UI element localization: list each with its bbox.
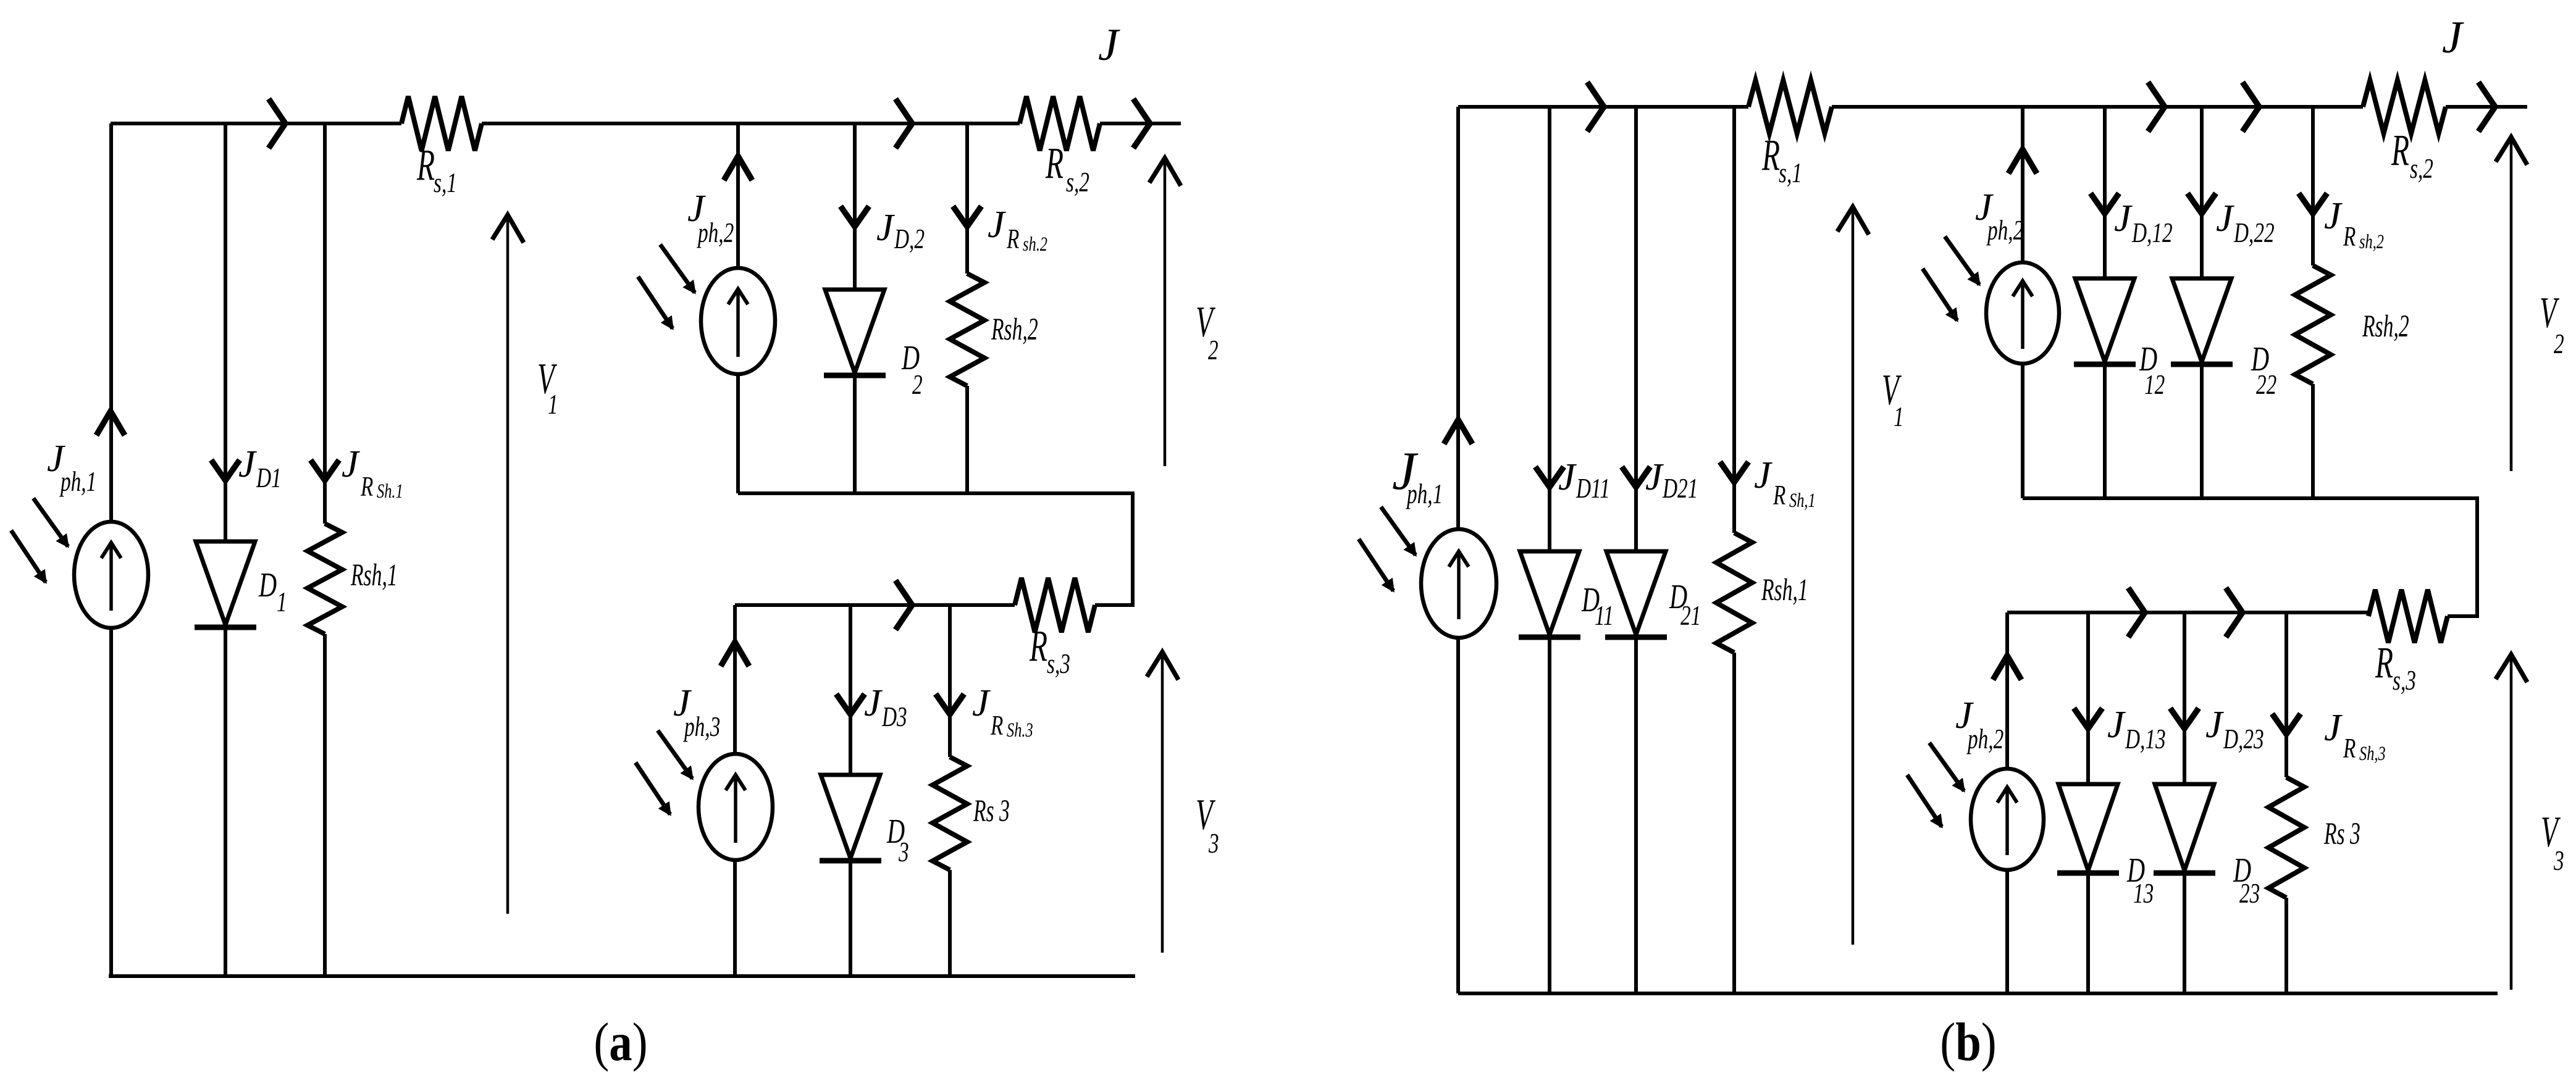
svg-text:R: R [2343, 221, 2356, 252]
cell3 top rail wire (b) [2007, 611, 2368, 614]
svg-text:R: R [990, 710, 1003, 741]
svg-text:J: J [1754, 454, 1773, 496]
svg-text:D21: D21 [1662, 473, 1698, 504]
svg-text:R: R [1761, 131, 1780, 180]
diode D21 (b) [1606, 551, 1666, 635]
wire diode branch D12 upper (b) [2103, 107, 2107, 278]
circuit (b) top rail wire segment 2 [1832, 105, 2363, 109]
resistor Rsh,1 (b) [1716, 533, 1752, 653]
diode D12 (b) [2075, 278, 2134, 362]
svg-text:D,22: D,22 [2233, 217, 2275, 248]
svg-text:R: R [2343, 733, 2356, 764]
current arrow JRsh.2 (a) [953, 206, 981, 227]
svg-text:J: J [876, 207, 895, 249]
svg-text:Sh,3: Sh,3 [2359, 743, 2386, 765]
wire diode branch D11 upper (b) [1548, 107, 1551, 551]
svg-text:R: R [1045, 139, 1064, 188]
resistor Rs,3 (a) [1015, 578, 1095, 632]
wire diode branch D21 upper (b) [1634, 107, 1638, 551]
svg-text:22: 22 [2256, 369, 2276, 400]
svg-text:s,3: s,3 [2393, 665, 2416, 696]
diode D1 (a) [196, 541, 255, 625]
cell2 bottom rail wire (b) [2023, 496, 2477, 500]
illumination arrows on Jph,3 (a) [658, 730, 692, 779]
wire shunt branch Rsh.3 upper (a) [948, 605, 952, 757]
svg-text:J: J [2107, 704, 2126, 746]
wire source branch Jph,3 lower (a) [733, 860, 737, 976]
svg-text:Rs 3: Rs 3 [2323, 817, 2360, 851]
resistor Rs,1 (a) [401, 96, 482, 151]
wire diode branch D12 lower (b) [2103, 364, 2107, 498]
resistor Rsh,1 (a) [308, 524, 342, 634]
interconnect wire cell2-cell3 (b) [2475, 496, 2479, 616]
current source Jph,2 bottom (b) [1971, 769, 2044, 870]
wire diode branch D1 lower (a) [224, 627, 227, 976]
svg-text:12: 12 [2144, 369, 2165, 400]
current arrow Jph,3 (a) [721, 642, 749, 666]
current arrow JRSh.3 (a) [936, 694, 964, 714]
wire shunt branch RSh,3 upper (b) [2284, 612, 2288, 777]
svg-text:J: J [1558, 456, 1577, 498]
svg-text:D,12: D,12 [2131, 217, 2173, 248]
svg-text:D,13: D,13 [2125, 724, 2166, 754]
svg-text:s,3: s,3 [1047, 648, 1070, 679]
current arrow JD11 (b) [1535, 467, 1564, 487]
cell3 top rail wire (a) [735, 603, 1015, 607]
svg-text:J: J [2442, 12, 2464, 63]
circuit (b) top rail wire segment 1 [1458, 105, 1748, 109]
current arrow JRsh,2 (b) [2299, 193, 2327, 214]
wire diode branch D11 lower (b) [1548, 637, 1551, 993]
wire shunt branch Rsh,2 upper (b) [2311, 107, 2315, 265]
svg-text:1: 1 [548, 389, 558, 420]
svg-text:D11: D11 [1575, 473, 1610, 504]
circuit (a) current arrow on top rail [269, 99, 285, 148]
voltage arrow V1 (a) [506, 217, 510, 914]
wire diode branch D23 lower (b) [2183, 873, 2186, 993]
svg-text:D: D [258, 566, 277, 604]
wire shunt branch Rsh,2 upper (a) [965, 123, 969, 274]
svg-text:R: R [2391, 126, 2409, 175]
current arrow on cell3 rail 2 (b) [2226, 588, 2242, 637]
svg-text:ph,2: ph,2 [1966, 724, 2003, 754]
current source Jph,2 (b) [1986, 262, 2059, 364]
svg-text:R: R [416, 141, 435, 190]
current arrow JD,12 (b) [2091, 193, 2119, 214]
wire shunt branch RSh,3 lower (b) [2284, 898, 2288, 993]
resistor Rs,2 (a) [1020, 96, 1100, 151]
circuit (b) left vertical wire lower [1456, 638, 1460, 993]
svg-text:s,2: s,2 [1066, 167, 1089, 198]
svg-text:Rsh,1: Rsh,1 [350, 558, 397, 592]
current arrow Jph,1 (b) [1444, 420, 1472, 444]
wire diode branch D21 lower (b) [1634, 637, 1638, 993]
wire source branch Jph,2 lower (a) [736, 374, 740, 493]
wire shunt branch Rsh,2 lower (a) [965, 386, 969, 493]
diode D3 (a) [821, 775, 880, 858]
svg-text:3: 3 [898, 837, 908, 867]
wire shunt branch Rsh,1 upper (a) [323, 123, 327, 524]
svg-text:13: 13 [2133, 878, 2154, 909]
svg-text:R: R [360, 471, 373, 502]
svg-text:J: J [342, 443, 360, 485]
wire source branch Jph,2 bottom lower (b) [2005, 870, 2009, 993]
current arrow JRSh,1 (b) [1720, 462, 1748, 482]
current arrow JD1 (a) [211, 460, 240, 480]
current source Jph,2 (a) [701, 268, 775, 374]
wire diode branch D13 lower (b) [2086, 873, 2090, 993]
circuit (a) bottom rail wire [109, 974, 1135, 978]
svg-text:D1: D1 [256, 462, 282, 493]
svg-text:J: J [2324, 195, 2343, 237]
svg-text:R: R [1006, 224, 1019, 254]
svg-text:J: J [864, 682, 883, 724]
diode D2 (a) [825, 290, 884, 373]
wire diode branch D1 upper (a) [224, 123, 227, 541]
wire diode branch D3 lower (a) [849, 861, 852, 976]
svg-text:Rsh,1: Rsh,1 [1761, 573, 1808, 607]
wire shunt branch Rsh,1 upper (b) [1732, 107, 1736, 533]
circuit (b) current arrow on top rail [1587, 82, 1604, 132]
circuit (a) output wire with current J [1100, 122, 1181, 125]
wire shunt branch Rsh,1 lower (a) [323, 634, 327, 976]
svg-text:(a): (a) [594, 1011, 647, 1072]
circuit (a) current arrow mid top rail [896, 99, 912, 148]
current source Jph,3 (a) [699, 754, 773, 860]
circuit (b) bottom rail wire [1458, 992, 2498, 995]
svg-text:s,2: s,2 [2410, 153, 2433, 184]
svg-text:11: 11 [1595, 600, 1614, 631]
current arrow on cell3 rail (a) [896, 580, 912, 630]
current arrow Jph,2 bottom (b) [1993, 656, 2021, 680]
svg-text:(b): (b) [1940, 1011, 1996, 1072]
svg-text:Sh.1: Sh.1 [377, 480, 403, 503]
svg-text:R: R [1029, 622, 1047, 671]
cell2 bottom rail wire (a) [738, 491, 1133, 495]
svg-text:1: 1 [277, 587, 287, 617]
svg-text:R: R [2375, 638, 2393, 687]
current arrow JD21 (b) [1622, 467, 1650, 487]
svg-text:J: J [1645, 456, 1664, 498]
illumination arrows on Jph,2 bottom (b) [1929, 743, 1964, 791]
svg-text:Sh.3: Sh.3 [1007, 719, 1033, 742]
svg-text:D,23: D,23 [2223, 724, 2264, 754]
current arrow Jph,1 (a) [96, 411, 125, 435]
svg-text:J: J [972, 682, 991, 724]
current arrow JD,13 (b) [2074, 708, 2102, 729]
wire source branch Jph,2 upper (a) [736, 123, 740, 268]
wire source branch Jph,3 upper (a) [733, 605, 737, 754]
current arrow JRSh,3 (b) [2272, 714, 2301, 734]
svg-text:21: 21 [1680, 600, 1701, 631]
wire diode branch D23 upper (b) [2183, 612, 2186, 784]
svg-text:3: 3 [2553, 845, 2564, 876]
svg-text:J: J [2216, 198, 2234, 240]
svg-text:ph,2: ph,2 [696, 217, 734, 248]
resistor Rs,2 (b) [2363, 80, 2446, 133]
current arrow JD,22 (b) [2188, 193, 2216, 214]
circuit (b) current arrow mid rail 2 [2242, 82, 2259, 132]
svg-text:sh.2: sh.2 [1023, 233, 1047, 256]
resistor Rs 3 shunt (b) [2268, 777, 2304, 898]
resistor Rsh,2 (a) [950, 274, 984, 386]
wire source branch Jph,2 bottom upper (b) [2005, 612, 2009, 769]
svg-text:2: 2 [1208, 335, 1219, 366]
wire diode branch D2 lower (a) [853, 375, 857, 493]
svg-text:J: J [2324, 707, 2343, 749]
svg-text:1: 1 [1894, 401, 1904, 432]
svg-text:J: J [1098, 20, 1120, 70]
svg-text:23: 23 [2239, 878, 2260, 909]
illumination arrows on Jph,1 (a) [33, 498, 68, 546]
svg-text:Rsh,2: Rsh,2 [2362, 309, 2409, 343]
circuit (b) output current arrowhead [2478, 82, 2495, 132]
current source Jph,1 (b) [1421, 529, 1496, 638]
illumination arrows on Jph,1 (b) [1381, 507, 1416, 555]
svg-text:J: J [2205, 704, 2224, 746]
circuit (b) output wire with current J [2446, 105, 2527, 109]
svg-text:3: 3 [1208, 828, 1219, 859]
voltage arrow V3 (a) [1161, 654, 1164, 953]
cell3 rail wire after Rs,3 (a) [1095, 603, 1135, 607]
circuit (a) output current arrowhead [1133, 99, 1150, 148]
wire diode branch D13 upper (b) [2086, 612, 2090, 784]
current arrow JD,2 (a) [841, 206, 869, 227]
current arrow JD,23 (b) [2170, 708, 2199, 729]
svg-text:2: 2 [2554, 328, 2564, 359]
svg-text:s,1: s,1 [1779, 157, 1802, 188]
diode D11 (b) [1520, 551, 1579, 635]
current arrow on cell3 rail 1 (b) [2128, 588, 2145, 637]
svg-text:D3: D3 [881, 701, 907, 732]
current arrow JD3 (a) [836, 694, 865, 714]
current arrow JRsh.1 (a) [311, 460, 339, 480]
illumination arrows on Jph,2 (b) [1945, 236, 1979, 285]
wire diode branch D22 upper (b) [2200, 107, 2204, 278]
svg-text:Rs 3: Rs 3 [973, 794, 1010, 828]
voltage arrow V1 (b) [1852, 210, 1855, 945]
diode D13 (b) [2058, 784, 2118, 871]
circuit (a) top rail wire segment 2 [482, 122, 1020, 125]
svg-text:ph,2: ph,2 [1986, 215, 2023, 246]
wire diode branch D22 lower (b) [2200, 364, 2204, 498]
circuit (b) current arrow mid rail 1 [2148, 82, 2165, 132]
resistor Rs 3 shunt (a) [933, 757, 967, 870]
svg-text:D,2: D,2 [894, 224, 925, 254]
svg-text:Rsh,2: Rsh,2 [991, 312, 1038, 346]
voltage arrow V3 (b) [2510, 658, 2513, 990]
voltage arrow V2 (a) [1164, 161, 1167, 466]
wire diode branch D3 upper (a) [849, 605, 852, 775]
circuit (a) top rail wire segment 1 [111, 122, 401, 125]
svg-text:ph,1: ph,1 [1405, 478, 1443, 509]
wire source branch Jph,2 lower (b) [2021, 364, 2024, 498]
svg-text:s,1: s,1 [434, 167, 457, 198]
resistor Rs,1 (b) [1748, 80, 1832, 133]
diode D22 (b) [2172, 278, 2231, 362]
svg-text:R: R [1773, 480, 1785, 511]
svg-text:2: 2 [912, 369, 923, 400]
current source Jph,1 (a) [74, 522, 148, 628]
wire source branch Jph,2 upper (b) [2021, 107, 2024, 262]
svg-text:Sh,1: Sh,1 [1789, 490, 1816, 512]
illumination arrows on Jph,2 (a) [660, 244, 695, 293]
voltage arrow V2 (b) [2510, 141, 2513, 471]
circuit (a) left vertical wire upper [109, 123, 113, 522]
diode D23 (b) [2155, 784, 2214, 871]
svg-text:sh,2: sh,2 [2359, 231, 2384, 253]
svg-text:J: J [2114, 198, 2133, 240]
circuit (b) left vertical wire upper [1456, 107, 1460, 529]
svg-text:J: J [238, 443, 257, 485]
current arrow Jph,2 (a) [724, 156, 752, 180]
resistor Rs,3 (b) [2368, 590, 2448, 643]
wire shunt branch Rsh,2 lower (b) [2311, 384, 2315, 498]
svg-text:ph,3: ph,3 [682, 711, 720, 742]
wire shunt branch Rsh,1 lower (b) [1732, 653, 1736, 993]
cell3 rail wire after Rs,3 (b) [2448, 614, 2479, 618]
interconnect wire cell2-cell3 (a) [1131, 491, 1135, 605]
current arrow Jph,2 (b) [2008, 149, 2037, 173]
wire diode branch D2 upper (a) [853, 123, 857, 290]
wire shunt branch Rsh.3 lower (a) [948, 870, 952, 976]
svg-text:J: J [988, 204, 1006, 246]
svg-text:ph,1: ph,1 [59, 466, 96, 497]
resistor Rsh,2 (b) [2295, 265, 2331, 384]
circuit (a) left vertical wire lower [109, 628, 113, 976]
